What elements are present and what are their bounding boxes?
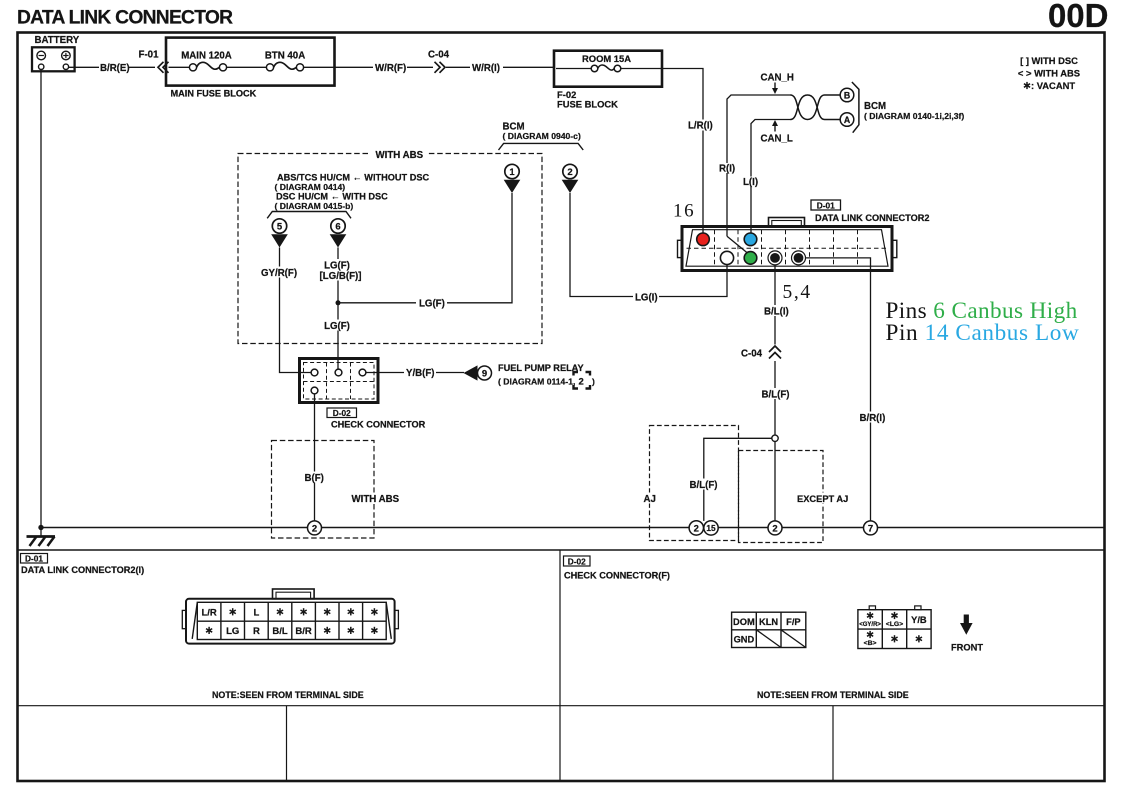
fuse BTN 40A — [265, 51, 305, 71]
wire L/R(I) from fuse to pin 16 — [660, 69, 713, 234]
svg-text:L: L — [253, 607, 259, 618]
wire LG(F) from pin 1 — [338, 193, 512, 309]
wire B/R(I) from black pin 2 — [806, 258, 887, 521]
svg-text:LG(F): LG(F) — [419, 298, 445, 309]
fuse MAIN 120A — [181, 51, 232, 71]
check connector pin d — [311, 387, 318, 394]
svg-text:DATA LINK CONNECTOR2(I): DATA LINK CONNECTOR2(I) — [21, 565, 144, 575]
wire between fuses — [227, 66, 267, 68]
node 7 ground — [864, 521, 878, 535]
connector C-04 — [428, 50, 450, 73]
wire LG(F) from pin 6 down — [320, 248, 362, 370]
svg-text:( DIAGRAM 0140-1i,2i,3f): ( DIAGRAM 0140-1i,2i,3f) — [864, 111, 964, 121]
wire B/R(E) — [69, 63, 156, 74]
check connector pin c — [359, 369, 366, 376]
svg-text:L/R(I): L/R(I) — [688, 121, 713, 132]
svg-text:[LG/B(F)]: [LG/B(F)] — [320, 271, 362, 282]
svg-text:B/R(I): B/R(I) — [860, 413, 886, 424]
check connector pin b — [335, 369, 342, 376]
pin 6 green — [744, 252, 757, 265]
ground bus wire — [41, 527, 1104, 529]
BCM pin A — [840, 113, 854, 127]
D-01 pinout grid — [197, 602, 386, 639]
svg-text:D-02: D-02 — [333, 408, 351, 418]
svg-text:D-01: D-01 — [817, 200, 835, 210]
legend — [1018, 55, 1080, 91]
node 2 middle — [768, 521, 782, 535]
wire R(I) with CAN_H — [718, 95, 792, 236]
svg-text:DATA LINK CONNECTOR2: DATA LINK CONNECTOR2 — [815, 213, 930, 223]
svg-text:2: 2 — [694, 523, 699, 534]
svg-text:L(I): L(I) — [743, 177, 758, 188]
check connector D-02 — [300, 359, 379, 403]
bracket over BCM pins 1 2 — [499, 143, 584, 150]
node 9 fuel pump relay — [478, 366, 492, 380]
wire L(I) with CAN_L — [742, 120, 792, 234]
svg-text:C-04: C-04 — [741, 349, 763, 360]
svg-text:CAN_L: CAN_L — [761, 134, 793, 145]
front arrow — [951, 615, 983, 653]
svg-text:( DIAGRAM 0114-1,: ( DIAGRAM 0114-1, — [498, 377, 575, 387]
svg-text:D-02: D-02 — [568, 556, 586, 566]
svg-text:2: 2 — [579, 377, 584, 388]
svg-text:C-04: C-04 — [428, 50, 450, 61]
svg-text:DOM: DOM — [733, 617, 755, 627]
svg-text:WITH ABS: WITH ABS — [352, 494, 400, 505]
node battery ground junction — [38, 525, 43, 530]
svg-text:CAN_H: CAN_H — [761, 73, 794, 84]
svg-text:16: 16 — [673, 201, 695, 222]
section D-02 pinout — [564, 556, 671, 581]
D-01 connector schematic — [811, 200, 930, 223]
svg-text:B/L(F): B/L(F) — [762, 389, 790, 400]
battery — [32, 35, 80, 71]
dashed box WITH ABS lower — [272, 441, 400, 539]
svg-text:L/R: L/R — [201, 607, 216, 618]
pin black 2 — [792, 251, 806, 265]
svg-text:AJ: AJ — [644, 494, 656, 505]
label D-02 — [327, 408, 426, 430]
bracket over pins 5 6 — [267, 212, 351, 219]
BCM pin B — [840, 88, 854, 102]
wire B/L(I) from black pin 1 — [761, 265, 793, 521]
node 2 and 15 pair — [689, 521, 718, 535]
svg-text:Y/B(F): Y/B(F) — [406, 368, 435, 379]
wire Y/B(F) to fuel pump relay — [366, 365, 478, 380]
section D-01 pinout — [21, 554, 145, 576]
svg-text:B(F): B(F) — [305, 473, 324, 484]
wire LG(I) from pin 2 to white pin — [570, 193, 727, 304]
annotation pins canbus — [886, 298, 1080, 346]
label CAN_L with arrow — [761, 120, 793, 145]
label ABS/TCS HU/CM block — [275, 173, 430, 211]
svg-text:5: 5 — [277, 222, 283, 233]
twisted pair crossover — [791, 95, 841, 120]
svg-text:LG(I): LG(I) — [635, 293, 658, 304]
svg-text:F/P: F/P — [786, 617, 800, 627]
svg-text:B: B — [844, 90, 850, 100]
svg-text:MAIN 120A: MAIN 120A — [181, 51, 232, 62]
svg-text:( DIAGRAM 0414): ( DIAGRAM 0414) — [275, 182, 346, 192]
svg-text:F-01: F-01 — [139, 50, 160, 61]
svg-text:5,4: 5,4 — [783, 282, 812, 303]
svg-text:B/L: B/L — [272, 626, 288, 637]
dashed box WITH ABS upper — [238, 148, 542, 344]
D-01 pinout labels row 1 — [201, 607, 377, 618]
label CAN_H with arrow — [761, 73, 794, 95]
D-02 pinout table 1 — [732, 612, 806, 647]
svg-text:FUEL PUMP RELAY: FUEL PUMP RELAY — [498, 363, 584, 373]
ground — [27, 528, 56, 547]
main fuse block box — [166, 38, 335, 99]
svg-text:A: A — [844, 115, 851, 125]
svg-text:15: 15 — [706, 523, 716, 533]
svg-text:R: R — [253, 626, 260, 637]
svg-text:MAIN FUSE BLOCK: MAIN FUSE BLOCK — [171, 89, 257, 99]
svg-text:7: 7 — [868, 523, 873, 534]
wire GY/R(F) from pin 5 to check connector — [259, 248, 311, 373]
svg-text:2: 2 — [312, 523, 317, 534]
BCM pin 2 — [562, 164, 579, 193]
svg-text:BATTERY: BATTERY — [35, 35, 80, 46]
BCM pin 1 — [504, 164, 521, 193]
D-01 pinout labels row 2 — [206, 626, 378, 637]
svg-text:BTN 40A: BTN 40A — [265, 51, 305, 62]
svg-text:Y/B: Y/B — [911, 615, 927, 625]
BCM label — [864, 101, 964, 121]
svg-text:<GY/R>: <GY/R> — [859, 622, 881, 628]
label FUEL PUMP RELAY — [498, 363, 595, 389]
svg-text:B/L(I): B/L(I) — [764, 306, 789, 317]
node junction open circle — [772, 435, 778, 441]
BCM bracket — [852, 82, 859, 133]
svg-text:WITH ABS: WITH ABS — [376, 150, 424, 161]
svg-text:W/R(F): W/R(F) — [375, 63, 406, 74]
svg-text:[ ] WITH DSC: [ ] WITH DSC — [1020, 55, 1078, 66]
wire W/R(F) — [304, 63, 433, 74]
svg-text:6: 6 — [335, 222, 340, 233]
svg-text:GY/R(F): GY/R(F) — [261, 268, 297, 279]
svg-text:<B>: <B> — [864, 640, 877, 647]
connector D-01 body — [678, 218, 897, 271]
svg-text:ROOM 15A: ROOM 15A — [582, 53, 631, 64]
svg-text:B/R(E): B/R(E) — [100, 63, 130, 74]
svg-text:FRONT: FRONT — [951, 643, 983, 653]
pin 16 red — [697, 233, 710, 246]
svg-text:2: 2 — [772, 523, 777, 534]
fuse block F-02 box — [554, 51, 662, 110]
wire into fuse block — [169, 66, 190, 68]
svg-text:EXCEPT AJ: EXCEPT AJ — [797, 494, 848, 504]
fuse ROOM 15A — [556, 53, 660, 72]
pin 14 blue — [744, 233, 757, 246]
node junction on LG(F) — [336, 300, 341, 305]
svg-text:DATA LINK CONNECTOR: DATA LINK CONNECTOR — [17, 8, 233, 29]
pin 6 — [330, 219, 347, 248]
svg-text:B/L(F): B/L(F) — [690, 480, 718, 491]
dashed box EXCEPT AJ — [739, 451, 849, 543]
svg-text:1: 1 — [509, 167, 515, 178]
pin 5 — [271, 219, 288, 248]
svg-text:B/R: B/R — [295, 626, 312, 637]
wire branch left B/L(F) — [689, 438, 772, 521]
pin white — [720, 251, 733, 264]
connector F-01 — [139, 50, 169, 73]
svg-text:LG: LG — [226, 626, 239, 637]
svg-text:W/R(I): W/R(I) — [472, 63, 500, 74]
svg-text:D-01: D-01 — [25, 554, 43, 564]
svg-text:Pin 14 Canbus Low: Pin 14 Canbus Low — [886, 320, 1080, 346]
svg-text:CHECK CONNECTOR(F): CHECK CONNECTOR(F) — [564, 571, 670, 581]
svg-text:9: 9 — [482, 369, 487, 380]
svg-text:R(I): R(I) — [719, 164, 735, 175]
wire B(F) down from check connector — [303, 394, 327, 521]
wire battery negative to ground bus — [40, 70, 42, 528]
D-02 pinout table 2 — [858, 606, 931, 649]
svg-text:FUSE BLOCK: FUSE BLOCK — [557, 99, 618, 110]
svg-text:00D: 00D — [1048, 0, 1109, 34]
svg-text:( DIAGRAM 0940-c): ( DIAGRAM 0940-c) — [503, 131, 581, 141]
svg-text:< > WITH ABS: < > WITH ABS — [1018, 68, 1080, 79]
svg-text:: VACANT: : VACANT — [1031, 80, 1075, 91]
svg-text:( DIAGRAM 0415-b): ( DIAGRAM 0415-b) — [275, 201, 354, 211]
svg-text:NOTE:SEEN FROM TERMINAL SIDE: NOTE:SEEN FROM TERMINAL SIDE — [212, 690, 364, 700]
D-01 pinout connector body — [182, 589, 398, 644]
wire W/R(I) — [446, 63, 554, 74]
BCM label top middle — [503, 122, 581, 142]
svg-text:LG(F): LG(F) — [324, 260, 350, 271]
svg-text:<LG>: <LG> — [886, 621, 903, 628]
pin black 1 — [768, 251, 782, 265]
svg-text:NOTE:SEEN FROM TERMINAL SIDE: NOTE:SEEN FROM TERMINAL SIDE — [757, 690, 909, 700]
svg-text:CHECK CONNECTOR: CHECK CONNECTOR — [331, 420, 426, 430]
node 2 ground left — [308, 521, 322, 535]
check connector pin a — [311, 369, 318, 376]
svg-text:LG(F): LG(F) — [324, 321, 350, 332]
svg-text:KLN: KLN — [759, 617, 778, 627]
connector C-04 vertical — [741, 346, 781, 360]
svg-text:): ) — [592, 377, 595, 387]
svg-text:GND: GND — [734, 634, 755, 644]
wire diagonal R(I) to green pin — [727, 236, 751, 255]
dashed box AJ — [643, 426, 739, 541]
svg-text:2: 2 — [567, 167, 572, 178]
